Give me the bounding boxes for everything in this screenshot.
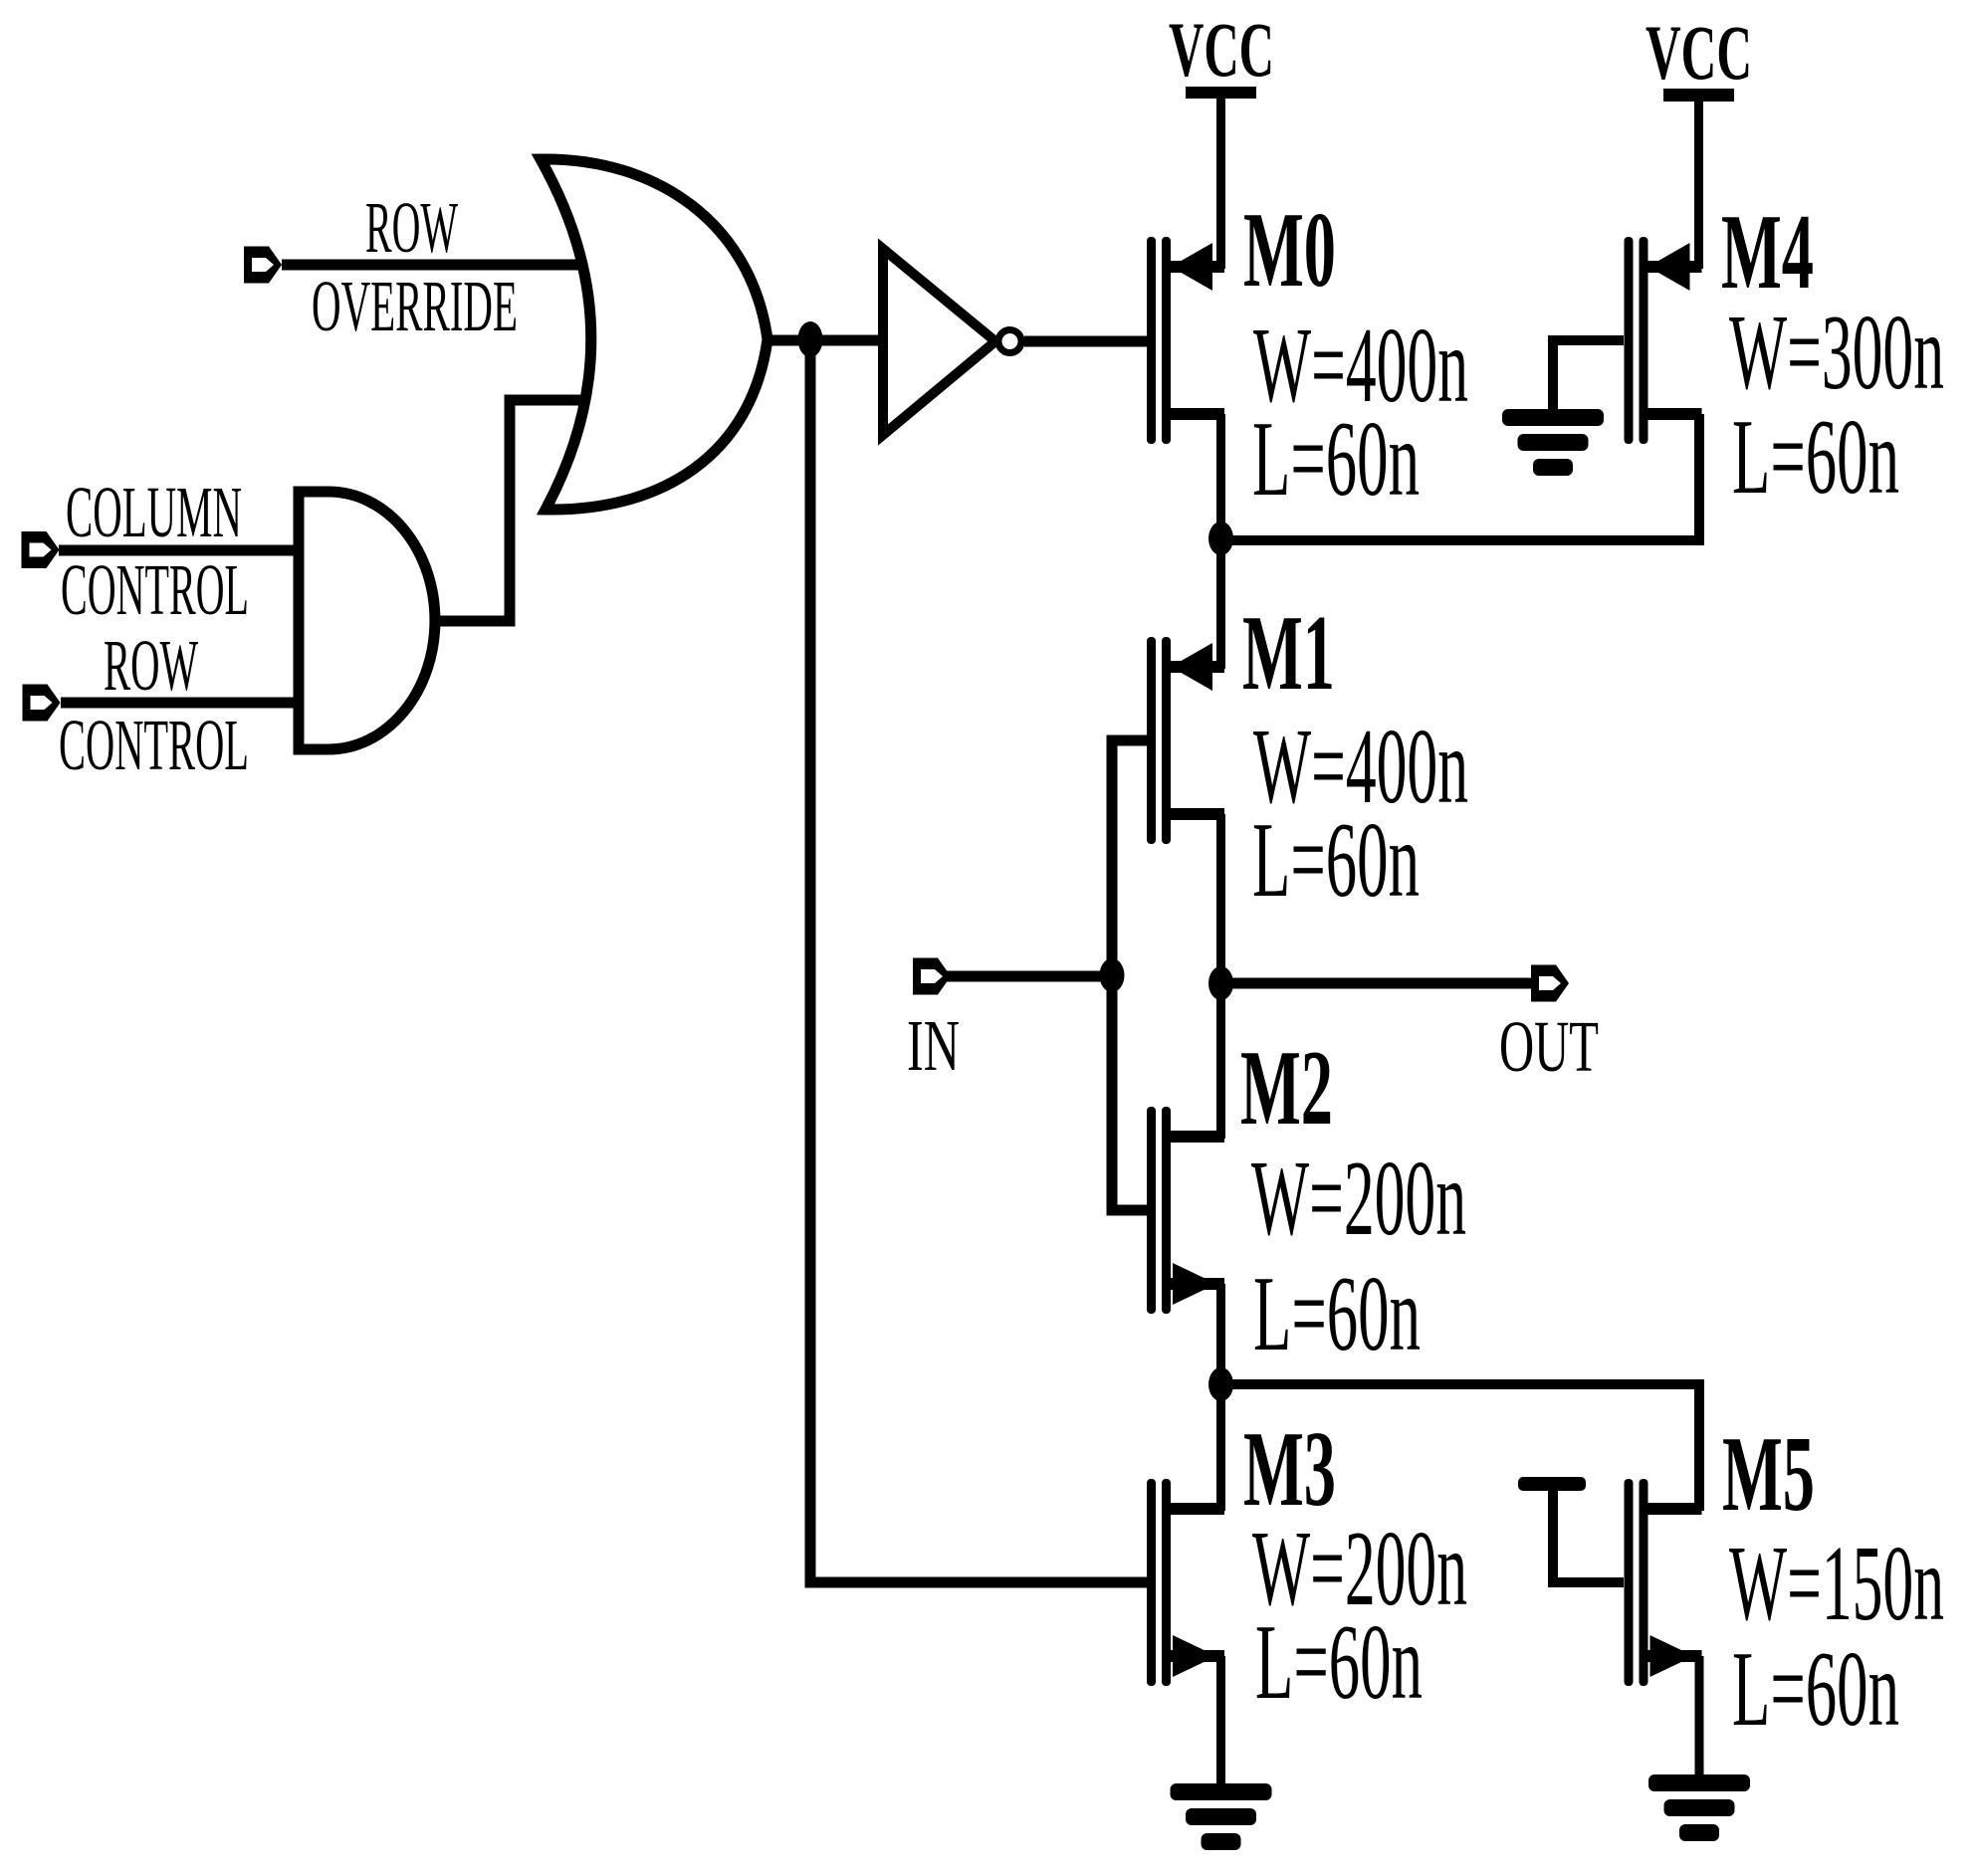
svg-text:M2: M2 (1240, 1029, 1333, 1147)
svg-text:W=150n: W=150n (1729, 1525, 1944, 1643)
svg-text:L=60n: L=60n (1252, 801, 1420, 920)
svg-text:ROW: ROW (365, 187, 458, 268)
svg-text:OUT: OUT (1499, 1006, 1599, 1087)
svg-text:L=60n: L=60n (1255, 1603, 1423, 1722)
svg-text:L=60n: L=60n (1732, 398, 1899, 517)
svg-text:CONTROL: CONTROL (61, 549, 249, 630)
svg-text:W=200n: W=200n (1251, 1140, 1466, 1258)
svg-text:M1: M1 (1242, 594, 1335, 713)
svg-text:ROW: ROW (104, 625, 198, 706)
svg-text:W=300n: W=300n (1729, 294, 1944, 412)
svg-text:OVERRIDE: OVERRIDE (312, 266, 518, 346)
svg-text:L=60n: L=60n (1732, 1630, 1899, 1749)
svg-text:COLUMN: COLUMN (66, 472, 242, 552)
svg-text:VCC: VCC (1169, 6, 1274, 93)
svg-text:L=60n: L=60n (1252, 400, 1420, 519)
svg-text:VCC: VCC (1646, 9, 1752, 96)
svg-text:L=60n: L=60n (1253, 1255, 1421, 1373)
svg-text:IN: IN (907, 1005, 960, 1086)
svg-text:CONTROL: CONTROL (59, 705, 249, 785)
svg-text:M0: M0 (1243, 191, 1336, 310)
svg-text:M5: M5 (1722, 1415, 1815, 1534)
